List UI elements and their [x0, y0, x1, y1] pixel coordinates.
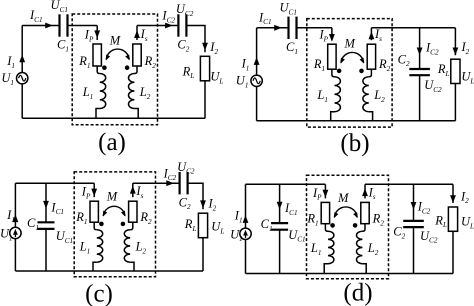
svg-text:IC1: IC1: [284, 201, 298, 217]
svg-text:(a): (a): [98, 129, 126, 156]
svg-text:C1: C1: [286, 40, 298, 56]
svg-text:UC1: UC1: [56, 229, 73, 245]
svg-text:UC2: UC2: [176, 2, 194, 18]
svg-text:(b): (b): [340, 130, 369, 157]
svg-text:U1: U1: [236, 74, 249, 90]
svg-text:M: M: [337, 191, 349, 205]
svg-text:IC2: IC2: [161, 9, 175, 25]
svg-text:R1: R1: [78, 54, 90, 70]
svg-text:UC1: UC1: [51, 0, 68, 14]
svg-text:I1: I1: [6, 208, 15, 224]
svg-text:C1: C1: [27, 216, 39, 232]
svg-text:L1: L1: [82, 85, 94, 101]
svg-text:UC1: UC1: [288, 228, 305, 244]
svg-text:UC1: UC1: [280, 1, 297, 17]
svg-text:I2: I2: [208, 197, 217, 213]
svg-text:L1: L1: [316, 88, 328, 104]
svg-text:IC2: IC2: [417, 200, 431, 216]
svg-text:IC1: IC1: [258, 10, 272, 26]
svg-text:I1: I1: [241, 57, 250, 73]
svg-text:M: M: [106, 190, 118, 204]
svg-text:RL: RL: [434, 213, 447, 229]
svg-text:C1: C1: [57, 38, 69, 54]
svg-text:U1: U1: [1, 71, 14, 87]
svg-text:I1: I1: [234, 209, 243, 225]
svg-text:L2: L2: [139, 85, 151, 101]
svg-text:IP: IP: [319, 28, 329, 44]
svg-text:IC2: IC2: [425, 41, 439, 57]
svg-text:I2: I2: [460, 189, 469, 205]
svg-text:R2: R2: [139, 210, 152, 226]
svg-text:RL: RL: [184, 217, 197, 233]
svg-text:I2: I2: [461, 40, 470, 56]
svg-text:I2: I2: [209, 40, 218, 56]
svg-text:L2: L2: [373, 88, 385, 104]
svg-text:UL: UL: [461, 215, 474, 231]
svg-text:IC1: IC1: [50, 200, 64, 216]
svg-text:Is: Is: [140, 27, 148, 43]
svg-text:R2: R2: [372, 212, 385, 228]
svg-text:R1: R1: [306, 212, 318, 228]
svg-text:R2: R2: [378, 57, 391, 73]
svg-text:L2: L2: [135, 240, 147, 256]
svg-text:IC2: IC2: [163, 166, 177, 182]
svg-text:C2: C2: [179, 195, 191, 211]
svg-text:RL: RL: [182, 64, 195, 80]
svg-text:UL: UL: [210, 70, 223, 86]
svg-text:R2: R2: [144, 54, 157, 70]
svg-text:M: M: [344, 37, 356, 51]
svg-text:L1: L1: [79, 240, 91, 256]
svg-text:C1: C1: [261, 217, 273, 233]
svg-text:Is: Is: [135, 184, 143, 200]
svg-text:UC2: UC2: [424, 78, 442, 94]
svg-text:M: M: [109, 34, 121, 48]
svg-text:C2: C2: [398, 52, 410, 68]
svg-text:IP: IP: [81, 185, 91, 201]
svg-text:RL: RL: [437, 62, 450, 78]
svg-text:R1: R1: [75, 210, 87, 226]
svg-text:IC1: IC1: [29, 8, 43, 24]
svg-text:L1: L1: [310, 241, 322, 257]
svg-text:Is: Is: [374, 27, 382, 43]
svg-text:(d): (d): [343, 279, 372, 306]
svg-text:I1: I1: [6, 54, 15, 70]
svg-text:R1: R1: [313, 57, 325, 73]
svg-text:IP: IP: [84, 28, 94, 44]
svg-text:UC2: UC2: [420, 229, 438, 245]
svg-text:IP: IP: [312, 186, 322, 202]
svg-text:UL: UL: [211, 220, 224, 236]
svg-text:L2: L2: [367, 241, 379, 257]
svg-text:Is: Is: [368, 185, 376, 201]
svg-text:UL: UL: [461, 70, 474, 86]
svg-text:UC2: UC2: [177, 160, 195, 176]
svg-text:C2: C2: [177, 38, 189, 54]
svg-text:(c): (c): [85, 281, 113, 306]
